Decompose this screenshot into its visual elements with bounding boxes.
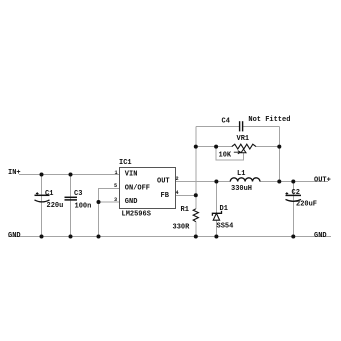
svg-text:4: 4	[176, 190, 179, 196]
svg-text:C3: C3	[74, 190, 82, 198]
svg-text:LM2596S: LM2596S	[122, 210, 151, 218]
svg-text:330uH: 330uH	[231, 185, 252, 193]
svg-text:C2: C2	[292, 189, 300, 197]
svg-text:Not Fitted: Not Fitted	[248, 116, 290, 124]
svg-text:1: 1	[115, 170, 118, 176]
svg-text:100n: 100n	[75, 203, 92, 211]
svg-text:5: 5	[114, 183, 117, 189]
svg-text:2: 2	[176, 176, 179, 182]
svg-text:C4: C4	[222, 117, 230, 125]
svg-text:VIN: VIN	[125, 171, 138, 179]
svg-text:SS54: SS54	[217, 223, 234, 231]
svg-text:D1: D1	[220, 205, 228, 213]
svg-text:220u: 220u	[47, 202, 64, 210]
svg-text:R1: R1	[181, 206, 189, 214]
svg-text:FB: FB	[161, 192, 170, 200]
svg-text:220uF: 220uF	[296, 201, 317, 209]
svg-text:10K: 10K	[219, 152, 232, 160]
svg-text:IN+: IN+	[8, 169, 21, 177]
svg-text:C1: C1	[45, 190, 53, 198]
svg-text:ON/OFF: ON/OFF	[125, 184, 150, 192]
svg-text:OUT: OUT	[157, 177, 170, 185]
svg-text:L1: L1	[237, 170, 245, 178]
svg-text:GND: GND	[314, 232, 327, 240]
svg-text:OUT+: OUT+	[314, 177, 331, 185]
svg-text:IC1: IC1	[119, 159, 132, 167]
svg-text:GND: GND	[125, 198, 138, 206]
svg-text:3: 3	[114, 197, 117, 203]
svg-text:VR1: VR1	[237, 135, 250, 143]
svg-text:GND: GND	[8, 232, 21, 240]
svg-text:330R: 330R	[173, 224, 191, 232]
